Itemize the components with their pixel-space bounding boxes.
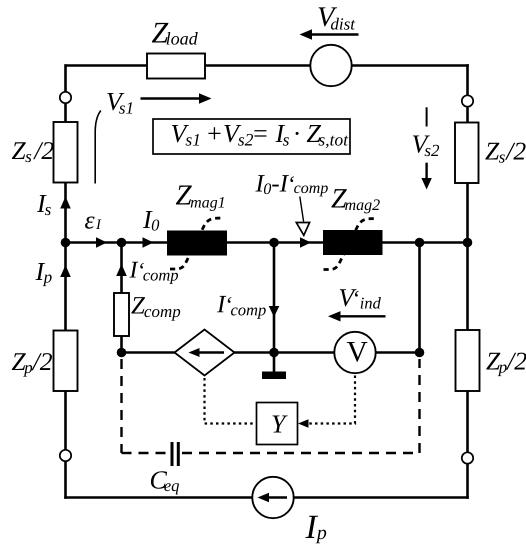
wire left below Zp/2: [64, 391, 67, 450]
dotted wire V to Y: [307, 376, 355, 424]
source Ip: [252, 477, 293, 518]
wire right above Zs/2: [466, 107, 469, 123]
voltmeter V: [334, 332, 375, 373]
wire right bottom stub: [466, 464, 469, 499]
wire right below Zp/2: [466, 391, 469, 452]
junction node right rail: [463, 238, 473, 248]
label Icomp2: [217, 296, 266, 319]
junction node left rail: [61, 238, 71, 248]
wire left bottom stub: [64, 461, 67, 499]
wire bottom left horizontal: [64, 496, 252, 499]
label Zcomp: [131, 297, 180, 320]
wire center vertical Icomp: [273, 243, 276, 353]
capacitor Ceq plate right: [177, 442, 180, 466]
resistor Zs/2 left: [54, 122, 78, 183]
pointer line I0-Icomp: [300, 197, 304, 222]
block Y: [257, 403, 298, 445]
junction node V bottom: [415, 348, 425, 358]
dotted wire diamond to Y: [205, 378, 255, 424]
arrow on rail after node: [300, 237, 311, 247]
voltmeter letter: [347, 342, 368, 362]
arrow Ip left: [60, 265, 71, 277]
brace curve Vs1: [95, 111, 101, 184]
label I0-Icomp: [255, 175, 327, 196]
label Zmag1: [176, 186, 224, 211]
label Vs1: [107, 93, 132, 114]
arrow Icomp2 down: [269, 306, 280, 317]
saturation curve Zmag1: [170, 218, 222, 269]
dashed wire Ceq bottom right: [182, 452, 420, 454]
terminal circle left bottom: [60, 450, 71, 461]
arrow Vs2: [425, 163, 427, 179]
arrow Vdist: [310, 33, 359, 35]
wire right above node: [466, 183, 469, 243]
ground bar: [262, 372, 286, 380]
equation text: [172, 125, 349, 148]
inductor Zmag1: [167, 231, 227, 256]
label Is: [37, 195, 51, 215]
wire right mid vertical: [466, 244, 469, 331]
junction node Zcomp top: [117, 238, 127, 248]
resistor Zs/2 right: [455, 123, 479, 184]
capacitor Ceq plate left: [171, 442, 174, 466]
arrow in Ip source: [267, 496, 287, 498]
dashed wire Ceq bottom left: [122, 452, 169, 454]
arrow epsilon: [96, 237, 107, 247]
label Ceq: [151, 471, 179, 494]
arrow Vs1: [141, 97, 201, 99]
label Vdist: [318, 7, 355, 29]
label Icomp1: [129, 262, 178, 284]
resistor Zload: [147, 54, 205, 79]
label Zp/2 right: [486, 353, 526, 377]
label I0: [143, 211, 159, 231]
resistor Zcomp: [114, 293, 129, 336]
equation box: [153, 119, 350, 154]
arrow Is: [60, 197, 71, 209]
terminal circle right bottom: [462, 452, 473, 463]
label Zs/2 left: [12, 142, 54, 162]
resistor Zp/2 left: [54, 331, 78, 392]
source Vdist: [310, 45, 351, 86]
arrow I0: [143, 237, 154, 247]
wire V-node vertical: [418, 243, 421, 353]
hollow arrow I0-Icomp: [296, 223, 309, 236]
junction node ground: [269, 348, 279, 358]
wire lower rail right: [376, 351, 420, 354]
label epsilon_I: [85, 216, 101, 229]
arrow into Y: [298, 419, 309, 428]
label Zload: [152, 23, 198, 45]
wire left upper vertical: [64, 64, 67, 92]
junction node Zcomp bottom: [117, 348, 127, 358]
label Ip left: [35, 263, 51, 286]
wire left below Zs/2: [64, 183, 67, 244]
arrow Icomp1 up: [116, 264, 127, 276]
arrow in diamond: [196, 351, 224, 353]
label Ip bottom: [305, 516, 326, 544]
label Y: [272, 415, 287, 432]
wire top-left horizontal: [66, 64, 148, 67]
terminal circle left top: [60, 92, 71, 103]
controlled source diamond: [175, 330, 235, 376]
ground stem: [273, 353, 276, 372]
dashed wire Ceq right vertical: [418, 359, 420, 453]
wire left mid-lower vertical: [64, 243, 67, 331]
wire right top stub: [466, 64, 469, 95]
wire lower rail left: [122, 351, 176, 354]
label Vind: [340, 289, 381, 308]
wire bottom right horizontal: [294, 496, 469, 499]
wire middle rail: [66, 241, 468, 244]
tick Vs2: [426, 107, 428, 126]
terminal circle right top: [462, 95, 473, 106]
saturation curve Zmag2: [324, 219, 376, 270]
junction node center rail: [269, 238, 279, 248]
resistor Zp/2 right: [456, 330, 480, 391]
wire top mid horizontal: [205, 64, 311, 67]
arrow Vind: [340, 315, 386, 317]
junction node V top: [415, 238, 425, 248]
label Zp/2 left: [12, 353, 52, 377]
label Vs2: [413, 135, 439, 156]
label Zs/2 right: [485, 143, 525, 163]
wire Zcomp branch lower: [120, 336, 123, 353]
wire Zcomp branch upper: [120, 243, 123, 294]
label Zmag2: [331, 189, 379, 213]
wire left above Zs/2: [64, 103, 67, 122]
wire lower rail mid: [234, 351, 334, 354]
dashed wire Ceq left vertical: [120, 359, 122, 453]
inductor Zmag2: [323, 230, 383, 255]
wire top right horizontal: [352, 64, 469, 67]
